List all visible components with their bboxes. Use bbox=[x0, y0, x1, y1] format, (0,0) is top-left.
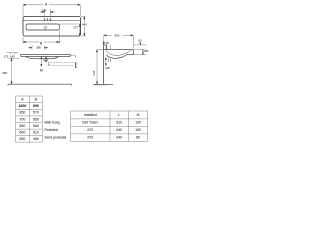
dimension 130 label bbox=[143, 49, 148, 52]
tap hole cross 1 bbox=[44, 18, 46, 21]
dash end arrow bbox=[75, 62, 76, 67]
slab right tick bbox=[71, 55, 76, 58]
left table grid bbox=[16, 96, 43, 142]
svg-text:208: 208 bbox=[41, 9, 46, 13]
dimension 208 bbox=[40, 9, 55, 17]
drain diamond bbox=[44, 26, 47, 29]
dimension 277 extension bbox=[60, 23, 81, 25]
plan view outer rim bbox=[23, 17, 81, 37]
ticks 75 85 bbox=[107, 45, 111, 50]
side front edge bbox=[126, 49, 133, 54]
dimension 610 bbox=[96, 49, 103, 84]
svg-text:150: 150 bbox=[135, 121, 141, 125]
front view drain bbox=[44, 59, 47, 61]
svg-text:850: 850 bbox=[19, 111, 25, 115]
svg-text:610: 610 bbox=[116, 121, 122, 125]
svg-text:700: 700 bbox=[19, 117, 25, 121]
svg-text:277: 277 bbox=[73, 26, 78, 30]
svg-text:Installed: Installed bbox=[84, 113, 97, 117]
side drain stub bbox=[108, 59, 111, 62]
right table grid bbox=[71, 111, 148, 141]
svg-text:560: 560 bbox=[33, 117, 39, 121]
dimension 610 label bbox=[92, 68, 96, 79]
svg-text:225: 225 bbox=[105, 66, 110, 70]
tap hole cross 2 bbox=[47, 18, 49, 21]
svg-text:670: 670 bbox=[88, 136, 94, 140]
svg-text:L: L bbox=[118, 113, 120, 117]
front view bowl bbox=[26, 56, 59, 58]
front view slab bbox=[21, 54, 71, 56]
svg-text:570: 570 bbox=[33, 111, 39, 115]
dimension L arrow bbox=[45, 57, 46, 63]
svg-text:M: M bbox=[40, 69, 43, 73]
svg-text:M: M bbox=[137, 113, 140, 117]
side view wall bbox=[103, 36, 105, 42]
svg-text:630 Totem: 630 Totem bbox=[82, 121, 98, 125]
dimension B bbox=[23, 31, 60, 43]
front floor line bbox=[8, 84, 72, 85]
svg-text:560: 560 bbox=[33, 124, 39, 128]
svg-text:640: 640 bbox=[116, 128, 122, 132]
svg-text:640: 640 bbox=[116, 136, 122, 140]
side deck top bbox=[104, 48, 134, 50]
dimension 277 line bbox=[79, 24, 80, 36]
plan view back deck line bbox=[23, 20, 80, 22]
svg-text:600: 600 bbox=[33, 104, 39, 108]
svg-text:130: 130 bbox=[144, 49, 149, 53]
bracket 175 145 bbox=[7, 53, 19, 55]
svg-text:510: 510 bbox=[33, 131, 39, 135]
dimension A line bbox=[23, 4, 81, 16]
dimension 225 bbox=[105, 57, 106, 65]
svg-text:80: 80 bbox=[136, 136, 140, 140]
side upstand bbox=[104, 45, 107, 50]
dimension 440 label bbox=[81, 23, 87, 26]
dashed level M bbox=[48, 65, 76, 67]
svg-text:550: 550 bbox=[115, 34, 120, 38]
floor hatching bbox=[94, 84, 105, 86]
side bowl shell bbox=[107, 55, 127, 58]
svg-text:670: 670 bbox=[88, 128, 94, 132]
svg-text:Semi pedestal: Semi pedestal bbox=[44, 136, 66, 140]
svg-text:550: 550 bbox=[19, 137, 25, 141]
dashed level L bbox=[48, 61, 76, 63]
svg-text:650: 650 bbox=[19, 124, 25, 128]
dimension 440 bbox=[81, 17, 86, 37]
svg-text:460: 460 bbox=[33, 137, 39, 141]
svg-text:1000: 1000 bbox=[18, 104, 26, 108]
svg-text:145: 145 bbox=[10, 55, 15, 59]
side floor bbox=[94, 83, 114, 85]
svg-text:175: 175 bbox=[4, 55, 9, 59]
side bowl interior bbox=[106, 50, 131, 55]
dimension 277 label bbox=[73, 26, 79, 29]
dimension 650 bbox=[8, 58, 19, 84]
svg-text:280: 280 bbox=[36, 46, 41, 50]
svg-text:150: 150 bbox=[135, 128, 141, 132]
svg-text:60: 60 bbox=[138, 39, 142, 43]
plan view bowl inner rect bbox=[26, 24, 60, 30]
dimension 280 bbox=[28, 46, 48, 50]
tap hole cross 3 bbox=[50, 18, 52, 21]
dimension 550 bbox=[104, 35, 134, 49]
dimension 60 bbox=[134, 42, 147, 45]
svg-text:600: 600 bbox=[19, 131, 25, 135]
svg-text:610: 610 bbox=[92, 70, 96, 75]
svg-text:Wall hung: Wall hung bbox=[44, 121, 59, 125]
svg-text:650: 650 bbox=[2, 71, 7, 75]
svg-text:440: 440 bbox=[82, 23, 87, 27]
dimension M arrow bbox=[41, 57, 42, 67]
dimension 130 bbox=[134, 49, 147, 54]
svg-text:Pedestal: Pedestal bbox=[44, 128, 58, 132]
